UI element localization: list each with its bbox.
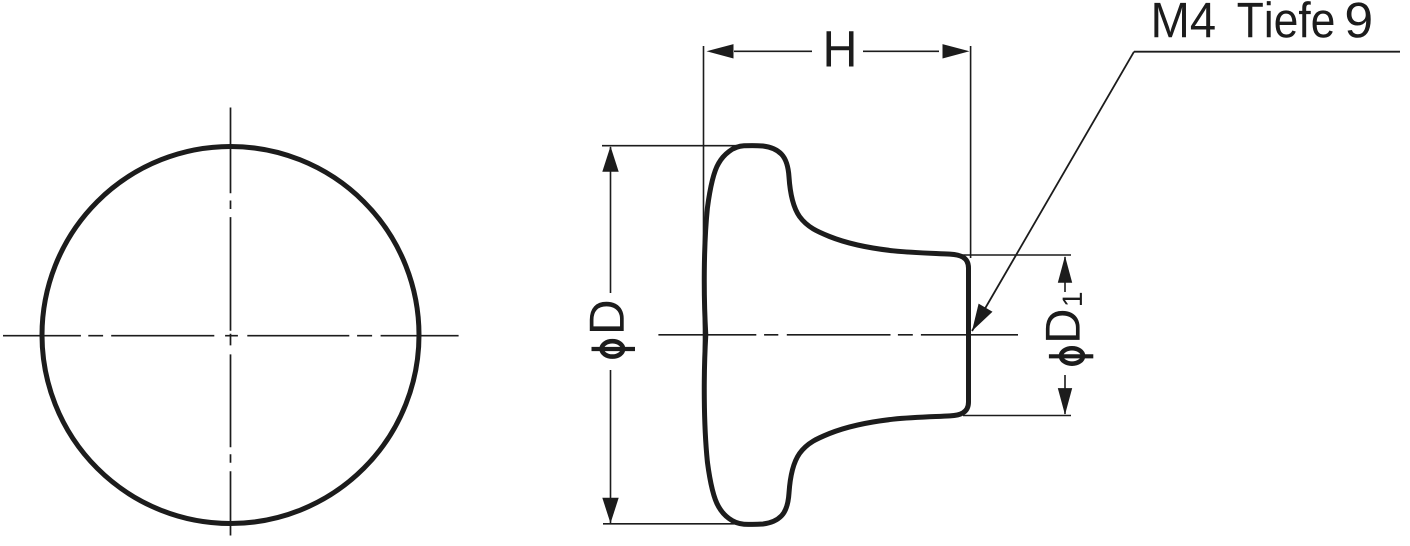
dimension phi-D: label diameter symbol circle <box>602 341 623 356</box>
leader note: arrowhead at tapped hole <box>972 304 993 331</box>
dimension phi-D1: label diameter symbol bar <box>1049 354 1093 358</box>
dimension phi-D1: label diameter symbol circle <box>1061 348 1083 363</box>
dimension phi-D: label letter "D" (rotated) <box>590 302 624 331</box>
front view: knob outline circle <box>42 147 419 524</box>
dimension phi-D: dimension line (two segments around label) <box>610 147 612 523</box>
dimension H: left extension line <box>703 46 705 410</box>
leader note: text "Tiefe" <box>1238 1 1334 38</box>
dimension H: label "H" <box>827 31 854 66</box>
front view: horizontal centerline (dash-dot) <box>3 335 459 337</box>
dimension phi-D: top arrowhead <box>602 146 618 172</box>
dimension phi-D1: bottom arrowhead <box>1058 388 1072 415</box>
dimension phi-D: bottom extension line <box>603 523 752 525</box>
dimension phi-D: bottom arrowhead <box>602 498 618 524</box>
leader note: horizontal underline segment <box>1134 51 1400 53</box>
leader note: text "M4" <box>1154 3 1214 37</box>
dimension H: dimension line (two segments around label) <box>734 50 939 52</box>
dimension phi-D1: top extension line <box>957 254 1071 256</box>
leader note: diagonal leader line to tapped hole <box>972 52 1134 331</box>
dimension phi-D1: top arrowhead <box>1058 256 1072 283</box>
dimension phi-D1: dimension line (two segments around label) <box>1064 257 1066 414</box>
dimension H: left arrowhead <box>707 44 734 58</box>
leader note: text "9" <box>1347 2 1371 37</box>
dimension phi-D1: label subscript "1" (rotated) <box>1063 293 1082 305</box>
dimension phi-D1: bottom extension line <box>963 415 1071 417</box>
dimension H: right extension line <box>970 46 972 258</box>
dimension phi-D: label diameter symbol bar <box>592 347 636 351</box>
dimension H: right arrowhead <box>943 44 970 58</box>
dimension phi-D1: label letter "D" (rotated) <box>1046 311 1080 340</box>
dimension phi-D: top extension line <box>602 145 750 147</box>
side view: knob profile upper half <box>704 146 968 335</box>
side view: horizontal centerline (dash-dot) <box>658 334 1018 336</box>
front view: vertical centerline (dash-dot) <box>230 108 232 536</box>
side view: knob profile lower half (mirror of upper) <box>704 335 968 524</box>
